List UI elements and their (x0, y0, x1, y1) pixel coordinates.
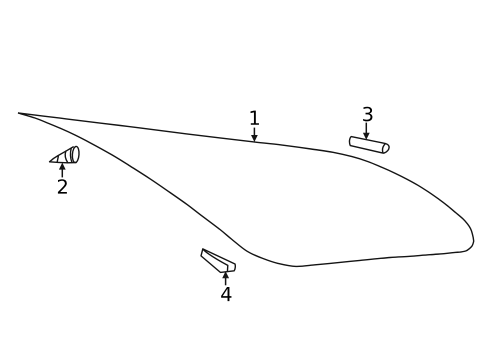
arrow 2 (59, 163, 65, 177)
screw (part 2) (50, 146, 80, 163)
label 3 (363, 107, 372, 122)
arrow 4 (223, 272, 229, 285)
arrow 1 (252, 128, 258, 142)
label 4 (221, 287, 231, 301)
back glass outline (part 1) (18, 113, 474, 267)
retainer bar (part 3) (350, 137, 390, 154)
label 2 (58, 179, 67, 193)
molded clip block (part 4) (201, 249, 235, 273)
label 1 (251, 111, 259, 125)
arrow 3 (363, 123, 369, 140)
